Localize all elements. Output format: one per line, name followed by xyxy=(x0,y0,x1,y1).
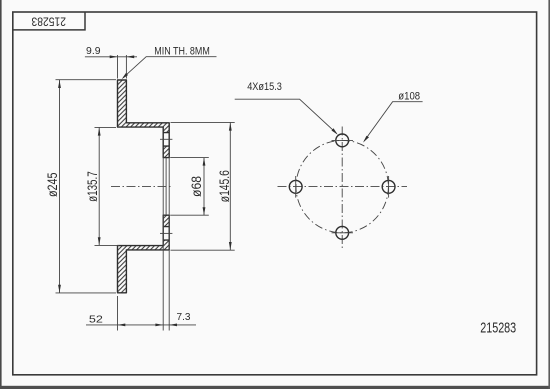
svg-text:ø145.6: ø145.6 xyxy=(216,170,232,202)
label MIN TH. 8MM with leader xyxy=(123,57,216,78)
scan edge left xyxy=(0,0,2,389)
dimension diameter 135.7 xyxy=(95,127,120,245)
bolt hole top xyxy=(336,134,349,147)
dimension diameter 68 xyxy=(170,158,209,216)
dimensions 52 and 7.3 xyxy=(86,296,196,331)
svg-text:ø245: ø245 xyxy=(44,172,60,197)
title box xyxy=(13,12,85,30)
bore edge lines / 7.3 extension lines xyxy=(162,158,164,331)
svg-text:ø108: ø108 xyxy=(398,90,420,102)
scan edge right xyxy=(548,0,550,389)
svg-text:ø135.7: ø135.7 xyxy=(84,171,100,202)
main centerlines xyxy=(278,186,408,188)
centerline left view xyxy=(111,185,172,187)
bolt hole centre tick (top) xyxy=(160,138,172,140)
svg-text:ø68: ø68 xyxy=(188,176,204,197)
disc section bottom half xyxy=(118,215,170,293)
svg-text:52: 52 xyxy=(89,313,103,325)
svg-text:MIN TH. 8MM: MIN TH. 8MM xyxy=(154,46,210,58)
label 4X diameter 15.3 with leader xyxy=(235,99,337,133)
bolt hole bottom xyxy=(336,226,349,239)
bolt hole centre tick (bottom) xyxy=(160,232,172,234)
scan edge bottom xyxy=(0,386,550,389)
dimension diameter 145.6 xyxy=(171,122,235,250)
label diameter 108 with leader xyxy=(364,102,422,141)
svg-text:215283: 215283 xyxy=(32,15,67,27)
bolt circle (dash-dot) xyxy=(296,140,388,232)
svg-text:9.9: 9.9 xyxy=(86,45,101,57)
svg-text:4Xø15.3: 4Xø15.3 xyxy=(247,81,282,93)
disc section top half xyxy=(118,80,170,158)
bolt hole left xyxy=(289,180,302,193)
dimension 9.9 xyxy=(85,55,137,79)
dimension diameter 245 xyxy=(56,80,117,293)
bolt hole right xyxy=(382,180,395,193)
svg-text:215283: 215283 xyxy=(480,319,516,336)
svg-text:7.3: 7.3 xyxy=(177,311,191,323)
